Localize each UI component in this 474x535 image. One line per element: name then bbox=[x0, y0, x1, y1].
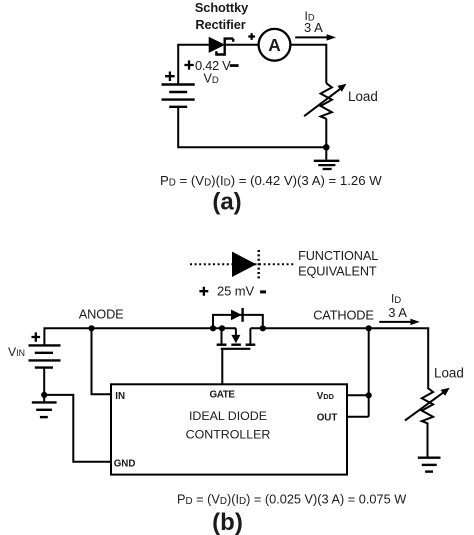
load wiper arrow (a) bbox=[304, 84, 346, 117]
svg-text:Load: Load bbox=[348, 89, 378, 104]
wire diode to ammeter (a) bbox=[225, 44, 259, 46]
svg-text:IN: IN bbox=[115, 391, 125, 402]
MOSFET Q1 gate wire bbox=[221, 349, 223, 385]
battery V1 (a) bbox=[162, 85, 195, 107]
body diode cathode bar bbox=[241, 308, 243, 322]
wire load bottom to ground (b) bbox=[427, 423, 429, 457]
wire anode node to IN pin bbox=[92, 328, 112, 394]
svg-text:FUNCTIONAL: FUNCTIONAL bbox=[298, 249, 378, 263]
svg-text:ID: ID bbox=[391, 291, 401, 305]
battery plus label (b) bbox=[32, 332, 41, 341]
wire OUT stub bbox=[347, 416, 369, 418]
svg-text:PD = (VD)(ID) = (0.42 V)(3 A): PD = (VD)(ID) = (0.42 V)(3 A) = 1.26 W bbox=[160, 173, 382, 189]
MOSFET Q1 source stub bbox=[221, 328, 223, 343]
ideal diode controller box U2 bbox=[111, 384, 347, 474]
label +0.42 V- (a) bbox=[184, 60, 193, 69]
svg-text:EQUIVALENT: EQUIVALENT bbox=[298, 264, 377, 278]
node source junction bbox=[219, 325, 225, 331]
svg-text:(a): (a) bbox=[212, 189, 241, 216]
functional equivalent cathode bar (dotted) bbox=[258, 250, 260, 279]
MOSFET Q1 gate bar bbox=[221, 348, 251, 350]
current arrow ID (a) bbox=[295, 34, 336, 40]
battery VIN (b) bbox=[29, 345, 61, 367]
svg-text:A: A bbox=[268, 35, 281, 55]
body diode D2 bbox=[231, 310, 242, 321]
MOSFET Q1 drain stub bbox=[249, 328, 251, 343]
svg-text:VDD: VDD bbox=[317, 391, 335, 402]
svg-text:CONTROLLER: CONTROLLER bbox=[186, 427, 271, 441]
node ANODE junction bbox=[88, 325, 94, 331]
svg-text:(b): (b) bbox=[212, 509, 243, 535]
wire battery bottom to node (a) bbox=[178, 107, 326, 148]
battery plus label (a) bbox=[165, 72, 175, 82]
svg-text:VIN: VIN bbox=[8, 345, 25, 359]
main wire right (b) bbox=[250, 328, 428, 388]
wire load bottom to node (a) bbox=[325, 119, 327, 148]
wire top horizontal battery to diode (a) bbox=[177, 44, 209, 46]
svg-text:25 mV: 25 mV bbox=[217, 284, 255, 299]
ground (a) bbox=[314, 161, 340, 169]
wire top-left vertical to battery (a) bbox=[177, 45, 179, 84]
plus polarity right of diode (a) bbox=[248, 33, 255, 40]
node body-diode right bbox=[260, 325, 266, 331]
svg-text:GND: GND bbox=[114, 459, 136, 470]
schottky diode D1 (a) bbox=[209, 38, 233, 55]
ground load (b) bbox=[418, 458, 441, 472]
wire ammeter to load corner (a) bbox=[290, 45, 326, 83]
svg-text:Schottky: Schottky bbox=[195, 0, 249, 15]
label + 25 mV - bbox=[199, 287, 208, 296]
svg-text:Rectifier: Rectifier bbox=[195, 17, 245, 32]
MOSFET Q1 contact bars bbox=[217, 344, 256, 346]
wire node to ground (a) bbox=[325, 147, 327, 159]
node VDD junction bbox=[366, 392, 372, 398]
functional equivalent dotted wire bbox=[190, 263, 294, 265]
functional equivalent diode bbox=[232, 252, 256, 277]
node body-diode left bbox=[210, 325, 216, 331]
wire VDD stub bbox=[347, 394, 369, 396]
svg-text:0.42 V: 0.42 V bbox=[195, 58, 231, 73]
svg-text:3 A: 3 A bbox=[304, 20, 323, 35]
wire battery to gnd node bbox=[43, 368, 45, 395]
ammeter U1 (a) bbox=[259, 29, 291, 61]
wire cathode node to VDD/OUT bbox=[368, 328, 370, 417]
main wire left (b) bbox=[44, 328, 236, 345]
current arrow ID (b) bbox=[379, 319, 420, 325]
svg-text:GATE: GATE bbox=[210, 389, 236, 400]
MOSFET Q1 body arrow bbox=[231, 328, 240, 343]
node CATHODE junction bbox=[366, 325, 372, 331]
svg-text:PD = (VD)(ID) = (0.025 V)(3 A): PD = (VD)(ID) = (0.025 V)(3 A) = 0.075 W bbox=[177, 491, 406, 507]
wire gnd node to ground bbox=[43, 395, 45, 401]
svg-text:VD: VD bbox=[204, 71, 219, 86]
load resistor R1 (a) bbox=[321, 83, 332, 119]
ground VIN (b) bbox=[32, 402, 57, 417]
wire gnd node to GND pin bbox=[44, 395, 111, 462]
node junction (a) bbox=[323, 144, 330, 151]
svg-text:IDEAL DIODE: IDEAL DIODE bbox=[189, 409, 267, 423]
svg-text:ANODE: ANODE bbox=[79, 307, 124, 322]
svg-text:CATHODE: CATHODE bbox=[313, 307, 374, 322]
svg-text:3 A: 3 A bbox=[388, 305, 407, 320]
node battery ground junction bbox=[41, 392, 47, 398]
body diode wires (b) bbox=[213, 315, 263, 328]
load wiper arrow (b) bbox=[405, 388, 450, 421]
svg-text:OUT: OUT bbox=[317, 413, 338, 424]
load resistor R2 (b) bbox=[422, 388, 433, 424]
svg-text:Load: Load bbox=[434, 365, 464, 380]
